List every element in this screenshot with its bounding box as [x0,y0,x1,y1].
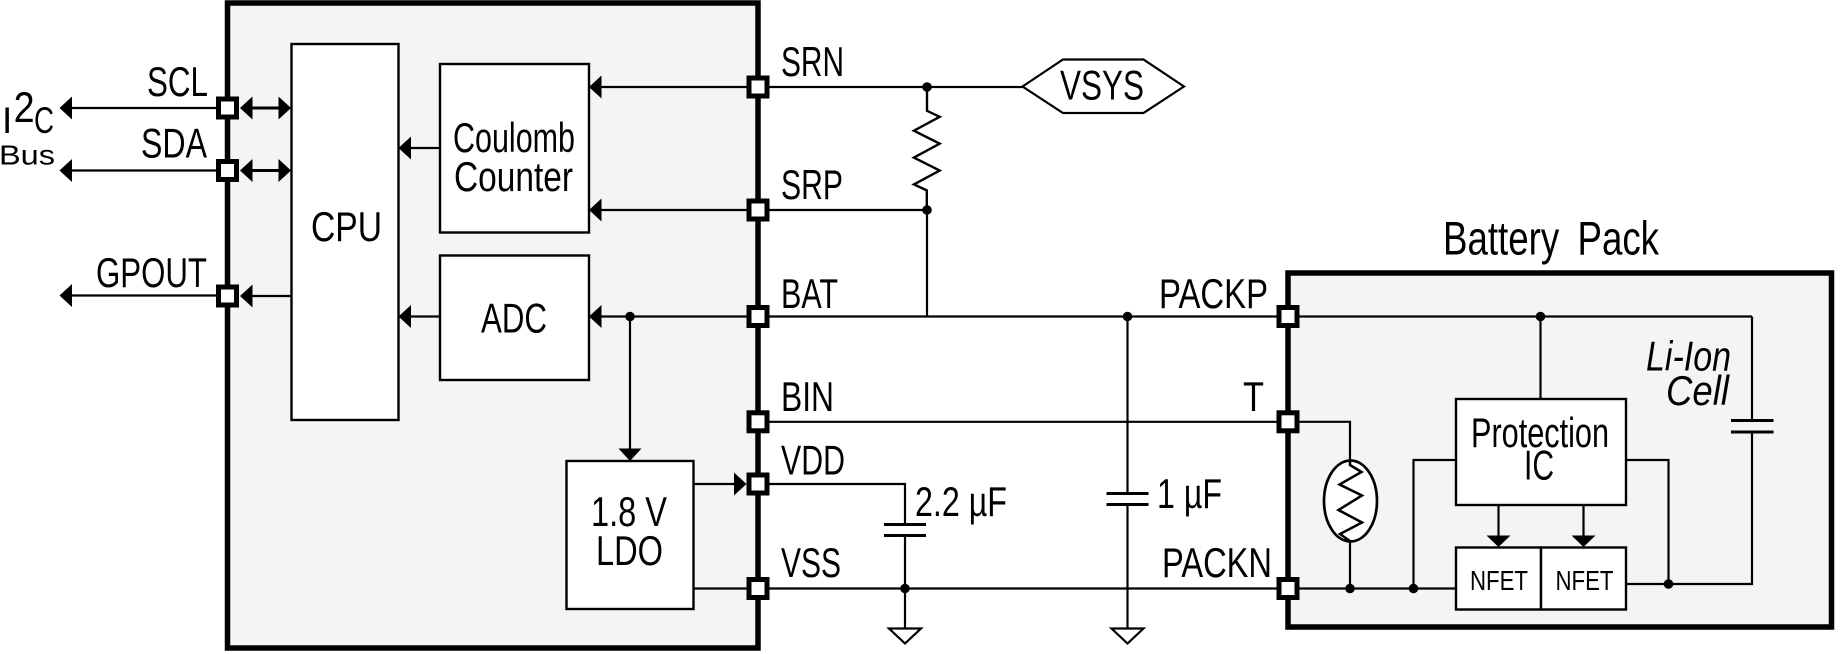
wire sense right to Protection IC [1626,460,1669,584]
svg-text:SCL: SCL [147,58,208,105]
svg-text:T: T [1243,373,1264,420]
svg-text:I: I [2,100,12,141]
capacitor C2 1uF [1107,492,1149,495]
battery cell Li-Ion [1731,419,1774,422]
wire SRN pin to Coulomb Counter [592,86,747,88]
wire 1uF to ground [1126,506,1128,628]
wire PACKN into pack [1300,587,1457,589]
node BAT-1uF junction [1123,312,1133,322]
wire LDO output to VDD pin [694,483,745,485]
node ADC-LDO junction [625,312,635,322]
svg-text:LDO: LDO [596,527,663,574]
wire ADC to CPU [402,315,440,317]
svg-text:CPU: CPU [311,203,382,250]
wire Protection IC to NFET2 gate [1582,505,1584,538]
node cell-sense junction [1664,579,1674,589]
Protection IC block [1456,399,1626,505]
CPU block [292,44,399,420]
svg-text:GPOUT: GPOUT [96,249,207,296]
resistor sense [914,87,940,210]
svg-text:VSS: VSS [781,539,841,586]
wire SRP pin to Coulomb Counter [592,209,747,211]
svg-text:2: 2 [14,84,35,132]
pin PACKN [1279,580,1297,598]
wire BIN to T [770,421,1277,423]
svg-text:PACKP: PACKP [1159,270,1268,317]
transistor NFET right [1541,548,1626,610]
wire SDA to CPU (bidirectional) [245,169,287,172]
wire junction to Protection IC [1539,317,1541,400]
wire PACKP into pack [1300,315,1753,317]
svg-text:BAT: BAT [781,270,838,317]
wire GPOUT external [63,294,217,296]
svg-text:IC: IC [1524,442,1554,489]
node SRN-resistor junction [922,82,932,92]
pin BIN [749,413,767,431]
svg-text:NFET: NFET [1556,565,1614,596]
wire sense left to Protection IC [1414,460,1457,589]
pin PACKP [1279,308,1297,326]
svg-text:SRP: SRP [781,161,843,208]
transistor NFET left [1456,548,1541,610]
svg-text:SDA: SDA [141,120,207,167]
node VSYS [1023,60,1185,114]
fuel gauge IC outline U1 [228,3,759,648]
svg-text:ADC: ADC [481,295,547,342]
wire T into pack [1300,422,1351,462]
Coulomb Counter block [440,64,589,233]
pin GPOUT [219,287,237,305]
svg-text:1 µF: 1 µF [1157,470,1222,517]
node 2.2uF-VSS junction [900,584,910,594]
wire BAT junction down through 1uF [1126,317,1128,493]
svg-text:PACKN: PACKN [1162,539,1272,586]
svg-text:Counter: Counter [454,153,573,200]
1.8V LDO block [567,461,694,609]
pin VSS [749,580,767,598]
wire Protection IC to NFET1 gate [1497,505,1499,538]
wire 2.2uF to VSS net [904,537,906,589]
pin VDD [749,475,767,493]
wire SRN to VSYS [770,86,1023,88]
wire SCL external [63,107,217,109]
wire cell bottom to NFET [1626,434,1752,585]
wire BAT to PACKP [770,315,1277,317]
wire SDA external [63,169,217,171]
wire BAT pin to ADC [592,315,747,317]
pin SRP [749,201,767,219]
wire VSS to ground [904,589,906,629]
wire junction down to BAT net [926,210,928,317]
svg-text:SRN: SRN [781,38,844,85]
wire VSS to PACKN [770,587,1277,589]
wire LDO to VSS pin [694,587,747,589]
battery pack outline [1288,273,1832,627]
node PACKN-sense junction [1409,584,1419,594]
thermistor [1324,461,1377,542]
pin SDA [219,162,237,180]
svg-text:BIN: BIN [781,373,834,420]
node PACKP-protection junction [1536,312,1546,322]
pin SRN [749,78,767,96]
pin SCL [219,99,237,117]
pin T [1279,413,1297,431]
ground [1112,629,1144,644]
node SRP-resistor junction [922,205,932,215]
wire GPOUT from CPU [243,295,291,297]
svg-text:NFET: NFET [1470,565,1528,596]
ground [889,629,921,644]
wire thermistor to PACKN net [1349,541,1351,589]
wire VDD to 2.2uF [770,484,906,524]
wire SRP pin to junction [770,209,928,211]
capacitor C1 2.2uF [884,523,926,526]
svg-text:Battery Pack: Battery Pack [1443,212,1659,265]
svg-text:Bus: Bus [0,140,55,171]
wire SCL to CPU (bidirectional) [245,107,287,110]
node thermistor-PACKN junction [1345,584,1355,594]
wire Coulomb Counter to CPU [402,147,440,149]
svg-text:VSYS: VSYS [1060,62,1144,109]
svg-text:C: C [34,100,54,141]
wire to Li-Ion cell [1751,317,1753,420]
ADC block [440,256,589,381]
pin BAT [749,308,767,326]
svg-text:2.2 µF: 2.2 µF [915,478,1007,525]
svg-text:Cell: Cell [1666,367,1730,414]
svg-text:VDD: VDD [781,437,845,484]
wire junction down to LDO [629,317,631,451]
